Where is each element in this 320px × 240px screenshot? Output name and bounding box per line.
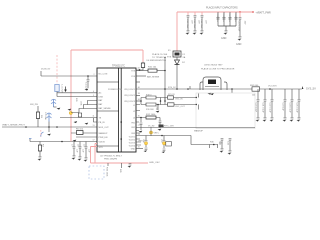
ground below red xyxy=(128,164,132,168)
resistor R6 vertical xyxy=(38,142,43,157)
svg-text:R12 100k: R12 100k xyxy=(146,114,156,116)
svg-text:BAT_SENSE: BAT_SENSE xyxy=(99,107,112,110)
svg-text:OSC_IN: OSC_IN xyxy=(175,99,183,101)
yellow node xyxy=(144,142,147,145)
svg-text:5: 5 xyxy=(93,95,94,97)
ground arrow xyxy=(47,134,51,136)
svg-text:38: 38 xyxy=(138,93,140,95)
ferrite bead FB2 xyxy=(136,60,166,71)
svg-text:2: 2 xyxy=(94,74,95,76)
capacitor C26 xyxy=(159,121,162,128)
red dash stub xyxy=(40,130,42,137)
svg-text:FB3: FB3 xyxy=(132,133,135,135)
capacitor C20 xyxy=(254,89,259,117)
svg-text:C24 0.1uF: C24 0.1uF xyxy=(288,103,290,114)
resistor R3 vertical xyxy=(30,104,42,127)
IC right pin stubs xyxy=(136,105,141,146)
junction xyxy=(164,70,166,72)
svg-text:C14 22uF: C14 22uF xyxy=(200,19,202,29)
wire DC input to IC xyxy=(41,71,97,76)
net +VBATT_PWR red top rail xyxy=(177,12,253,51)
capacitor C27 xyxy=(140,123,143,130)
capacitor C7 xyxy=(77,142,84,157)
ground xyxy=(228,151,232,155)
resistor R21 series lower xyxy=(168,103,186,108)
svg-text:USB: USB xyxy=(99,97,104,99)
ground right of IC xyxy=(210,93,214,95)
svg-text:R19 DNI: R19 DNI xyxy=(146,109,154,111)
resistor R10 xyxy=(148,67,165,73)
ground arrow xyxy=(85,89,89,91)
resistor R15 vertical small xyxy=(75,98,82,117)
wire FB row xyxy=(136,118,160,123)
ground xyxy=(84,158,88,162)
svg-text:C23 1uF: C23 1uF xyxy=(281,103,283,112)
resistor R16 xyxy=(146,96,156,99)
svg-text:16V: 16V xyxy=(244,21,246,25)
node VBATT end dot xyxy=(252,11,254,13)
blue dashed note box xyxy=(89,166,104,179)
svg-text:U3 NC7SZ04 TINY: U3 NC7SZ04 TINY xyxy=(204,65,223,67)
capacitor bank C15-C18 xyxy=(218,12,236,30)
ground xyxy=(162,149,166,153)
ground arrow near red xyxy=(68,109,72,111)
svg-text:VLDO1: VLDO1 xyxy=(129,137,135,139)
net SYS_5V dashed red xyxy=(56,55,58,84)
wire USB pin xyxy=(57,96,97,98)
svg-text:POWER PATH: POWER PATH xyxy=(108,88,122,91)
capacitor C3 xyxy=(200,12,207,30)
yellow node xyxy=(162,142,165,145)
capacitor C23 xyxy=(281,89,286,117)
svg-text:L2: L2 xyxy=(133,111,135,113)
svg-text:17: 17 xyxy=(93,140,95,142)
wire sense xyxy=(136,75,146,77)
ground arrow at junction xyxy=(73,140,77,142)
ground xyxy=(236,37,242,47)
red stub into bottom wire xyxy=(70,138,72,142)
junction dots on rail xyxy=(164,88,166,90)
resistor R13 xyxy=(146,114,156,119)
svg-text:BAT_SENSE: BAT_SENSE xyxy=(147,76,160,79)
svg-text:FB1: FB1 xyxy=(132,123,135,125)
svg-text:D4 NSR0320MXT5G: D4 NSR0320MXT5G xyxy=(147,60,167,62)
wire SYS 5V rail xyxy=(136,88,302,90)
svg-text:20: 20 xyxy=(138,146,140,148)
svg-text:VLDO4: VLDO4 xyxy=(129,146,135,148)
svg-text:C18 0.1u: C18 0.1u xyxy=(234,14,236,22)
bottom left wire xyxy=(30,139,97,142)
svg-text:VBATT_SENSE_PROT: VBATT_SENSE_PROT xyxy=(2,124,25,127)
wire LDO row 127 xyxy=(136,128,255,149)
svg-text:SYS_5V: SYS_5V xyxy=(306,87,316,91)
junction on 136 wire xyxy=(161,135,163,137)
wire AC pin xyxy=(57,92,97,94)
ground xyxy=(297,118,301,122)
capacitor C30 xyxy=(218,139,223,149)
series bead FB3 on rail xyxy=(250,85,260,97)
capacitor C24 xyxy=(288,89,293,117)
resistor R14 vertical below red xyxy=(106,163,108,177)
capacitor C29 xyxy=(160,139,171,148)
resistor R20 series upper xyxy=(168,94,184,101)
resistor stub under red xyxy=(121,163,123,168)
fuse F1 xyxy=(152,50,186,59)
svg-text:VIN_DCDC3: VIN_DCDC3 xyxy=(124,101,135,103)
wire module lower pins xyxy=(189,86,191,89)
svg-text:30: 30 xyxy=(138,115,140,117)
svg-text:VRTC: VRTC xyxy=(154,133,160,135)
capacitor C5 at AC input xyxy=(84,75,89,90)
capacitor C21 xyxy=(261,89,266,117)
ground arrow xyxy=(57,108,61,110)
pin dots xyxy=(196,97,197,98)
svg-text:DCIN_5V: DCIN_5V xyxy=(41,69,51,71)
IC U1 right pin labels xyxy=(124,71,135,151)
ground xyxy=(221,31,227,41)
ground xyxy=(193,31,197,35)
svg-text:R21 33: R21 33 xyxy=(168,94,175,96)
svg-text:PLACE CLOSE: PLACE CLOSE xyxy=(152,53,168,56)
capacitor C28 xyxy=(142,139,147,147)
ground xyxy=(256,118,260,122)
svg-text:FB2 600: FB2 600 xyxy=(250,85,259,87)
svg-text:C25 0.1uF: C25 0.1uF xyxy=(295,103,297,114)
oscillator module Y1 xyxy=(200,65,235,91)
wire L1 pins to module xyxy=(136,94,198,111)
capacitor C25 xyxy=(295,89,300,117)
wire bottom right pin xyxy=(136,148,143,150)
wire LDO row 136 xyxy=(146,136,164,141)
svg-text:GND: GND xyxy=(221,37,227,40)
svg-text:L1: L1 xyxy=(133,105,135,107)
svg-text:C17 0.1u: C17 0.1u xyxy=(228,14,230,22)
svg-text:VIN_DCDC1: VIN_DCDC1 xyxy=(124,89,135,91)
svg-text:C19 100uF: C19 100uF xyxy=(238,21,240,32)
svg-text:VIN_DCDC2: VIN_DCDC2 xyxy=(124,95,135,97)
capacitor C1 xyxy=(186,12,193,30)
svg-text:C20 10uF: C20 10uF xyxy=(254,103,256,113)
wire SYS rail vertical xyxy=(164,58,166,102)
svg-text:13: 13 xyxy=(93,125,95,127)
IC stub y82 xyxy=(136,81,140,83)
svg-text:AC: AC xyxy=(99,92,102,95)
junction xyxy=(61,141,63,143)
inductor L5 blue lower xyxy=(41,127,49,137)
svg-text:SYS: SYS xyxy=(167,57,172,59)
light courtyard box xyxy=(196,93,255,129)
node VBATT junction xyxy=(239,11,241,13)
ground module xyxy=(208,93,212,95)
diode D1 TVS xyxy=(175,57,186,89)
svg-text:PWR_EN: PWR_EN xyxy=(99,137,108,139)
ground xyxy=(139,131,143,133)
yellow node xyxy=(149,131,152,134)
svg-text:C21 0.1uF: C21 0.1uF xyxy=(261,103,263,114)
ground arrow xyxy=(65,87,67,91)
svg-text:MUX_OUT: MUX_OUT xyxy=(99,127,110,129)
svg-text:TPS65217C: TPS65217C xyxy=(112,65,125,68)
ground xyxy=(38,157,42,161)
svg-text:VRTC_1V8: VRTC_1V8 xyxy=(163,125,174,127)
svg-text:GND: GND xyxy=(131,149,136,151)
wires left mid bus xyxy=(2,101,97,138)
svg-text:FB2: FB2 xyxy=(132,127,135,129)
junction xyxy=(25,126,27,128)
svg-text:27: 27 xyxy=(138,125,140,127)
IC U1 left pin labels xyxy=(99,74,112,150)
svg-text:VCC3V3: VCC3V3 xyxy=(268,86,277,88)
svg-text:U2 TPS65217C IRSLT: U2 TPS65217C IRSLT xyxy=(100,156,123,158)
wire R top right xyxy=(136,70,148,72)
inductor L1 blue xyxy=(55,85,59,97)
svg-text:PB_IN: PB_IN xyxy=(99,122,106,124)
svg-text:SYS: SYS xyxy=(99,147,104,149)
ground xyxy=(270,118,274,122)
inductor L2 blue top xyxy=(51,99,57,107)
svg-text:4: 4 xyxy=(93,91,94,93)
svg-text:VDDIO: VDDIO xyxy=(99,142,106,144)
svg-text:R33 100k: R33 100k xyxy=(106,167,108,177)
svg-text:L3: L3 xyxy=(133,118,135,120)
capacitor C2 xyxy=(193,12,200,30)
svg-text:L2 10uH: L2 10uH xyxy=(44,113,46,121)
ground arrow under 158 xyxy=(156,111,160,113)
svg-text:L1 4.7uH: L1 4.7uH xyxy=(61,85,63,94)
svg-text:+VBATT_PWR: +VBATT_PWR xyxy=(256,11,272,14)
svg-text:WAKEUP: WAKEUP xyxy=(194,130,204,133)
svg-text:PLACE CLOSE TO PROCESSOR: PLACE CLOSE TO PROCESSOR xyxy=(201,68,235,71)
net label blue tick xyxy=(29,138,32,140)
node highlight yellow xyxy=(69,111,72,114)
svg-text:R5 10k: R5 10k xyxy=(76,129,84,131)
svg-text:C13 22uF: C13 22uF xyxy=(193,19,195,29)
inductor L4 blue mid xyxy=(47,113,52,127)
svg-text:OSC_OUT: OSC_OUT xyxy=(175,106,185,108)
svg-text:PLACE INPUT CAPACITORS: PLACE INPUT CAPACITORS xyxy=(206,7,238,10)
svg-text:C22 0.1uF: C22 0.1uF xyxy=(268,103,270,114)
capacitor C19 xyxy=(238,12,246,36)
IC U1 TPS65217 xyxy=(97,65,136,153)
svg-text:C16 0.1u: C16 0.1u xyxy=(222,14,224,22)
svg-text:VRTC: VRTC xyxy=(138,141,144,143)
resistor R4 on 133 row xyxy=(76,129,84,135)
ground xyxy=(220,149,224,153)
svg-text:V1_8D: V1_8D xyxy=(148,125,155,127)
ground xyxy=(263,118,267,122)
capacitor C31 xyxy=(226,139,231,151)
svg-text:PMIC 48QFN: PMIC 48QFN xyxy=(104,159,118,161)
svg-text:GND: GND xyxy=(236,43,242,46)
svg-text:11: 11 xyxy=(93,116,95,118)
capacitor C6 xyxy=(71,142,78,156)
junction xyxy=(140,117,142,119)
svg-text:C12 22uF: C12 22uF xyxy=(186,19,188,29)
svg-text:44: 44 xyxy=(138,68,140,70)
capacitor C8 xyxy=(83,142,90,158)
net arrow VCC xyxy=(302,86,304,89)
junction dot xyxy=(213,144,215,146)
svg-text:C15 0.1u: C15 0.1u xyxy=(216,14,218,22)
junction xyxy=(160,100,162,102)
svg-text:100k: 100k xyxy=(80,101,82,105)
ground xyxy=(158,129,162,131)
capacitor C22 xyxy=(268,89,273,117)
svg-text:VLDO3: VLDO3 xyxy=(129,143,135,145)
ground xyxy=(186,31,190,35)
IC junction dots xyxy=(120,121,122,123)
svg-text:NC_CON: NC_CON xyxy=(99,74,108,76)
svg-text:C1 1uF: C1 1uF xyxy=(84,82,86,90)
ground xyxy=(283,118,287,122)
svg-text:VLDO2: VLDO2 xyxy=(129,140,135,142)
svg-text:WAKEUP: WAKEUP xyxy=(99,132,109,135)
ground xyxy=(144,148,148,152)
ground xyxy=(290,118,294,122)
red bottom net xyxy=(91,144,149,164)
svg-text:40: 40 xyxy=(138,87,140,89)
svg-text:36: 36 xyxy=(138,99,140,101)
svg-text:R10 10k: R10 10k xyxy=(148,67,157,69)
ground xyxy=(200,31,204,35)
IC pin numbers xyxy=(93,68,140,149)
svg-text:GND_OSC: GND_OSC xyxy=(149,162,160,164)
small component on wire127 xyxy=(159,125,164,128)
junction dots on VBATT wire xyxy=(48,126,50,128)
net VIN red left rail xyxy=(71,50,143,141)
ground arrow stair1 xyxy=(74,121,78,123)
ground xyxy=(72,156,76,160)
ground arrow stair2 xyxy=(85,123,89,125)
ground xyxy=(78,157,82,161)
svg-text:SW_PB: SW_PB xyxy=(30,104,38,106)
